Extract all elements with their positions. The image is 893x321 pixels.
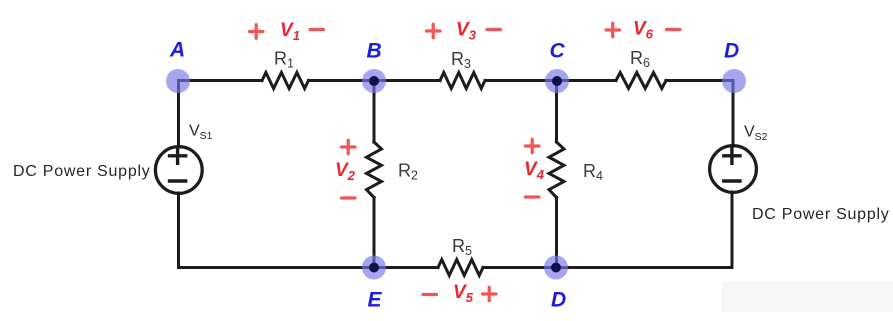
node D bottom: [544, 256, 568, 280]
minus sign of V3: [487, 28, 501, 31]
svg-text:E: E: [368, 289, 383, 312]
node A: [166, 69, 190, 93]
svg-text:DC Power Supply: DC Power Supply: [752, 206, 890, 223]
minus sign of V6: [667, 28, 681, 31]
minus sign of V5: [423, 293, 437, 296]
wire B to R3: [374, 79, 440, 82]
svg-text:D: D: [724, 40, 739, 63]
VS1 plus sign: [170, 148, 186, 163]
wire R6 to D: [666, 79, 733, 82]
minus sign of V2: [342, 196, 356, 199]
wire B down to R2: [373, 81, 376, 143]
minus sign of V1: [310, 28, 324, 31]
wire R3 to C: [485, 79, 557, 82]
wire R2 to E: [373, 198, 376, 268]
plus sign of V4: [526, 139, 540, 153]
plus sign of V1: [250, 25, 264, 39]
node C: [545, 69, 569, 93]
resistor R4: [549, 142, 564, 198]
resistor R1: [262, 73, 309, 89]
wire VS1 to bottom-left corner: [179, 193, 375, 268]
plus sign of V2: [342, 140, 356, 154]
resistor R6: [616, 73, 666, 89]
plus sign of V3: [427, 24, 441, 38]
wire D down to VS2: [732, 81, 735, 147]
wire R1 to B: [309, 79, 375, 82]
wire R4 to D bottom: [555, 198, 558, 268]
wire C down to R4: [555, 81, 558, 143]
wire right corner up to VS2: [731, 192, 734, 268]
resistor R2: [367, 142, 382, 198]
plus sign of V6: [606, 23, 620, 37]
VS2 minus sign: [724, 179, 740, 182]
svg-text:A: A: [169, 39, 185, 62]
plus sign of V5: [483, 287, 497, 301]
node B: [362, 69, 386, 93]
svg-text:C: C: [550, 40, 566, 63]
minus sign of V4: [526, 195, 540, 198]
VS2 plus sign: [724, 148, 740, 163]
wire D bottom to right corner: [556, 266, 732, 269]
VS1 minus sign: [170, 179, 186, 182]
dc source VS1: [155, 147, 202, 194]
node D top: [722, 69, 746, 93]
wire A to R1: [179, 79, 263, 82]
svg-text:DC Power Supply: DC Power Supply: [13, 163, 151, 180]
resistor R5: [438, 260, 483, 276]
svg-text:D: D: [551, 289, 566, 312]
wire C to R6: [557, 79, 617, 82]
wire E to R5: [374, 266, 438, 269]
node E: [362, 256, 386, 280]
dc source VS2: [710, 146, 757, 193]
light gray band bottom right: [722, 282, 893, 312]
wire A down to VS1: [177, 81, 180, 148]
resistor R3: [440, 73, 485, 89]
wire R5 to node D bottom: [483, 266, 556, 269]
svg-text:B: B: [367, 40, 382, 63]
